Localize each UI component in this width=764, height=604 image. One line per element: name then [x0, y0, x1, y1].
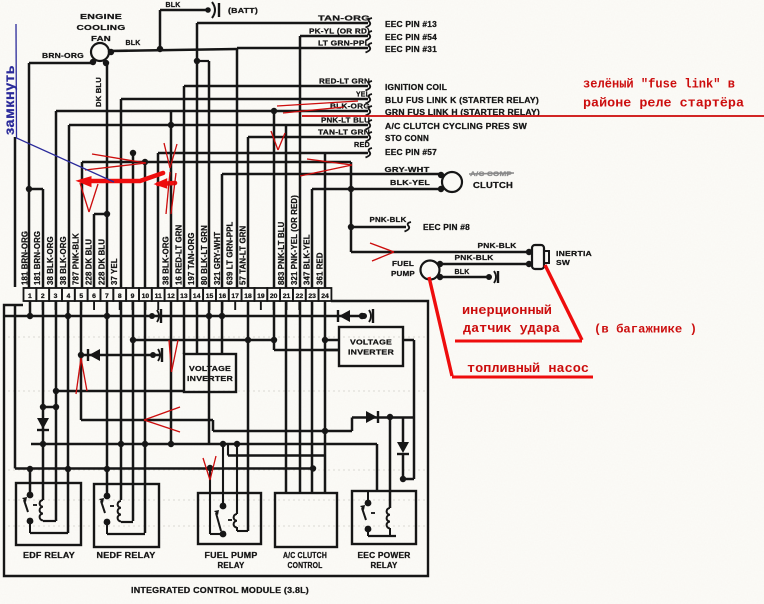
svg-text:BLU FUS LINK K (STARTER RELAY): BLU FUS LINK K (STARTER RELAY) — [385, 96, 539, 105]
svg-text:21: 21 — [283, 293, 291, 300]
svg-text:883 PNK-LT BLU: 883 PNK-LT BLU — [277, 221, 286, 285]
svg-text:321 PNK-YEL (OR RED): 321 PNK-YEL (OR RED) — [290, 195, 299, 285]
svg-text:37 YEL: 37 YEL — [110, 258, 119, 285]
svg-text:PUMP: PUMP — [391, 269, 415, 278]
svg-text:4: 4 — [67, 293, 71, 300]
svg-text:38 BLK-ORG: 38 BLK-ORG — [46, 236, 55, 285]
svg-text:датчик удара: датчик удара — [463, 321, 560, 336]
svg-text:EEC PIN #57: EEC PIN #57 — [385, 148, 437, 157]
svg-text:15: 15 — [206, 293, 214, 300]
svg-text:замкнуть: замкнуть — [2, 65, 17, 135]
svg-text:321 GRY-WHT: 321 GRY-WHT — [213, 232, 222, 285]
svg-text:80 BLK-LT GRN: 80 BLK-LT GRN — [200, 225, 209, 285]
svg-text:IGNITION COIL: IGNITION COIL — [385, 83, 447, 92]
svg-text:CONTROL: CONTROL — [288, 561, 323, 570]
svg-text:11: 11 — [155, 293, 162, 300]
svg-text:RELAY: RELAY — [371, 561, 399, 570]
svg-text:NEDF RELAY: NEDF RELAY — [97, 551, 157, 560]
svg-text:топливный насос: топливный насос — [467, 361, 589, 376]
svg-text:EEC PIN #8: EEC PIN #8 — [423, 223, 470, 232]
svg-text:EEC PIN #54: EEC PIN #54 — [385, 33, 437, 42]
svg-text:639 LT GRN-PPL: 639 LT GRN-PPL — [226, 221, 235, 285]
svg-text:38 BLK-ORG: 38 BLK-ORG — [59, 236, 68, 285]
svg-text:EDF RELAY: EDF RELAY — [23, 551, 76, 560]
svg-text:(BATT): (BATT) — [228, 6, 258, 15]
svg-text:YEL: YEL — [356, 90, 370, 99]
svg-text:6: 6 — [92, 293, 96, 300]
svg-text:5: 5 — [79, 293, 83, 300]
svg-text:7: 7 — [105, 293, 109, 300]
svg-text:19: 19 — [257, 293, 265, 300]
svg-text:787 PNK-BLK: 787 PNK-BLK — [72, 233, 81, 285]
svg-text:FUEL: FUEL — [392, 259, 414, 268]
svg-text:17: 17 — [231, 293, 239, 300]
svg-text:INVERTER: INVERTER — [348, 348, 395, 357]
svg-text:EEC POWER: EEC POWER — [358, 551, 411, 560]
svg-text:18: 18 — [244, 293, 252, 300]
svg-text:SW: SW — [556, 258, 571, 267]
svg-text:24: 24 — [321, 293, 329, 300]
svg-text:197 TAN-ORG: 197 TAN-ORG — [187, 232, 196, 285]
svg-text:TAN-ORG: TAN-ORG — [318, 14, 370, 23]
svg-text:инерционный: инерционный — [462, 303, 552, 318]
svg-text:PNK-BLK: PNK-BLK — [370, 215, 407, 224]
svg-text:A/C CLUTCH: A/C CLUTCH — [283, 551, 327, 560]
svg-text:181 BRN-ORG: 181 BRN-ORG — [20, 231, 29, 285]
svg-text:16 RED-LT GRN: 16 RED-LT GRN — [174, 224, 183, 285]
svg-text:PNK-BLK: PNK-BLK — [455, 253, 494, 262]
svg-text:FUEL PUMP: FUEL PUMP — [205, 551, 258, 560]
svg-text:22: 22 — [296, 293, 304, 300]
svg-text:12: 12 — [167, 293, 175, 300]
svg-text:16: 16 — [219, 293, 227, 300]
svg-text:38 BLK-ORG: 38 BLK-ORG — [162, 236, 171, 285]
svg-text:RED-LT GRN: RED-LT GRN — [319, 77, 370, 86]
svg-text:2: 2 — [41, 293, 45, 300]
svg-text:PK-YL (OR RD): PK-YL (OR RD) — [309, 27, 370, 36]
svg-text:(в багажнике ): (в багажнике ) — [594, 322, 697, 337]
svg-text:3: 3 — [54, 293, 58, 300]
svg-text:BLK-YEL: BLK-YEL — [390, 178, 430, 187]
svg-text:INTEGRATED CONTROL MODULE (3.8: INTEGRATED CONTROL MODULE (3.8L) — [131, 585, 309, 595]
svg-text:57 TAN-LT GRN: 57 TAN-LT GRN — [239, 226, 248, 285]
svg-text:TAN-LT GRN: TAN-LT GRN — [318, 128, 370, 137]
svg-text:PNK-BLK: PNK-BLK — [478, 241, 517, 250]
svg-text:EEC PIN #13: EEC PIN #13 — [385, 20, 437, 29]
svg-text:DK BLU: DK BLU — [94, 77, 103, 107]
svg-text:10: 10 — [142, 293, 150, 300]
svg-text:CLUTCH: CLUTCH — [473, 181, 513, 190]
svg-text:ENGINE: ENGINE — [80, 12, 122, 21]
svg-text:районе реле стартёра: районе реле стартёра — [583, 96, 744, 111]
svg-text:GRY-WHT: GRY-WHT — [385, 165, 430, 174]
svg-text:EEC PIN #31: EEC PIN #31 — [385, 45, 437, 54]
svg-text:VOLTAGE: VOLTAGE — [189, 364, 231, 373]
svg-text:BRN-ORG: BRN-ORG — [42, 51, 84, 60]
svg-text:BLK: BLK — [166, 0, 181, 9]
svg-text:BLK: BLK — [126, 38, 141, 47]
svg-text:23: 23 — [308, 293, 316, 300]
svg-text:13: 13 — [180, 293, 188, 300]
svg-text:зелёный "fuse link" в: зелёный "fuse link" в — [583, 77, 735, 92]
svg-text:347 BLK-YEL: 347 BLK-YEL — [303, 234, 312, 285]
svg-text:228 DK BLU: 228 DK BLU — [85, 239, 94, 285]
svg-text:8: 8 — [118, 293, 122, 300]
svg-text:361 RED: 361 RED — [316, 252, 325, 285]
svg-text:LT GRN-PPL: LT GRN-PPL — [318, 39, 370, 48]
svg-text:INERTIA: INERTIA — [556, 249, 592, 258]
svg-text:INVERTER: INVERTER — [187, 374, 234, 383]
svg-text:14: 14 — [193, 293, 201, 300]
svg-text:VOLTAGE: VOLTAGE — [350, 338, 392, 347]
svg-text:RELAY: RELAY — [218, 561, 246, 570]
svg-text:BLK: BLK — [455, 267, 470, 276]
svg-text:COOLING: COOLING — [77, 23, 126, 32]
svg-text:A/C CLUTCH CYCLING PRES SW: A/C CLUTCH CYCLING PRES SW — [385, 122, 527, 131]
svg-text:228 DK BLU: 228 DK BLU — [97, 239, 106, 285]
svg-text:9: 9 — [131, 293, 135, 300]
svg-text:20: 20 — [270, 293, 278, 300]
svg-text:FAN: FAN — [91, 34, 111, 43]
svg-text:1: 1 — [28, 293, 32, 300]
svg-text:181 BRN-ORG: 181 BRN-ORG — [33, 231, 42, 285]
svg-text:STO CONN: STO CONN — [385, 134, 429, 143]
